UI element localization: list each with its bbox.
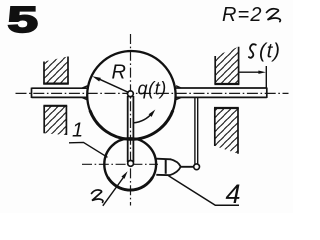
svg-text:R: R [112,62,126,84]
pin O (big disc center) [127,91,133,97]
wall upper-right (hatched) [214,47,239,84]
small disc (radius r) [104,138,156,190]
svg-text:1: 1 [72,120,83,142]
label s(t) [249,39,281,62]
hanger rod (from right rack down to pin B) [195,98,198,165]
wall lower-left (hatched) [43,106,67,135]
vertical centerline [130,34,132,206]
problem number 5 [8,0,38,40]
rod 2 (vertical link between pins) [128,96,134,162]
small disc horizontal centerline [82,163,158,165]
label r with arrow to pin A [92,171,128,206]
equation R=2r [222,4,280,26]
leader line to label 1 [69,142,108,157]
right rack rod [175,86,267,100]
wall upper-left (hatched) [43,57,69,84]
pin A (small disc center) [128,161,134,167]
wall lower-right (hatched) [214,108,239,154]
fork connector (element 4) [156,159,194,176]
left rack rod [32,86,89,100]
horizontal centerline (rack axis) [16,92,289,94]
svg-text:q(t): q(t) [138,79,167,99]
s(t) arrow [239,71,266,74]
disc 1 (big circle, radius R) [87,51,175,139]
svg-text:(t): (t) [259,39,281,62]
s(t) measurement tick [265,66,267,88]
leader line to label 4 [169,176,240,205]
svg-text:R=2: R=2 [222,4,263,26]
radius arrow R [92,76,129,92]
torque arc q(t) [133,110,155,123]
svg-text:4: 4 [226,179,241,209]
svg-text:5: 5 [8,0,38,40]
pin B (fork / hanger joint) [194,164,200,170]
